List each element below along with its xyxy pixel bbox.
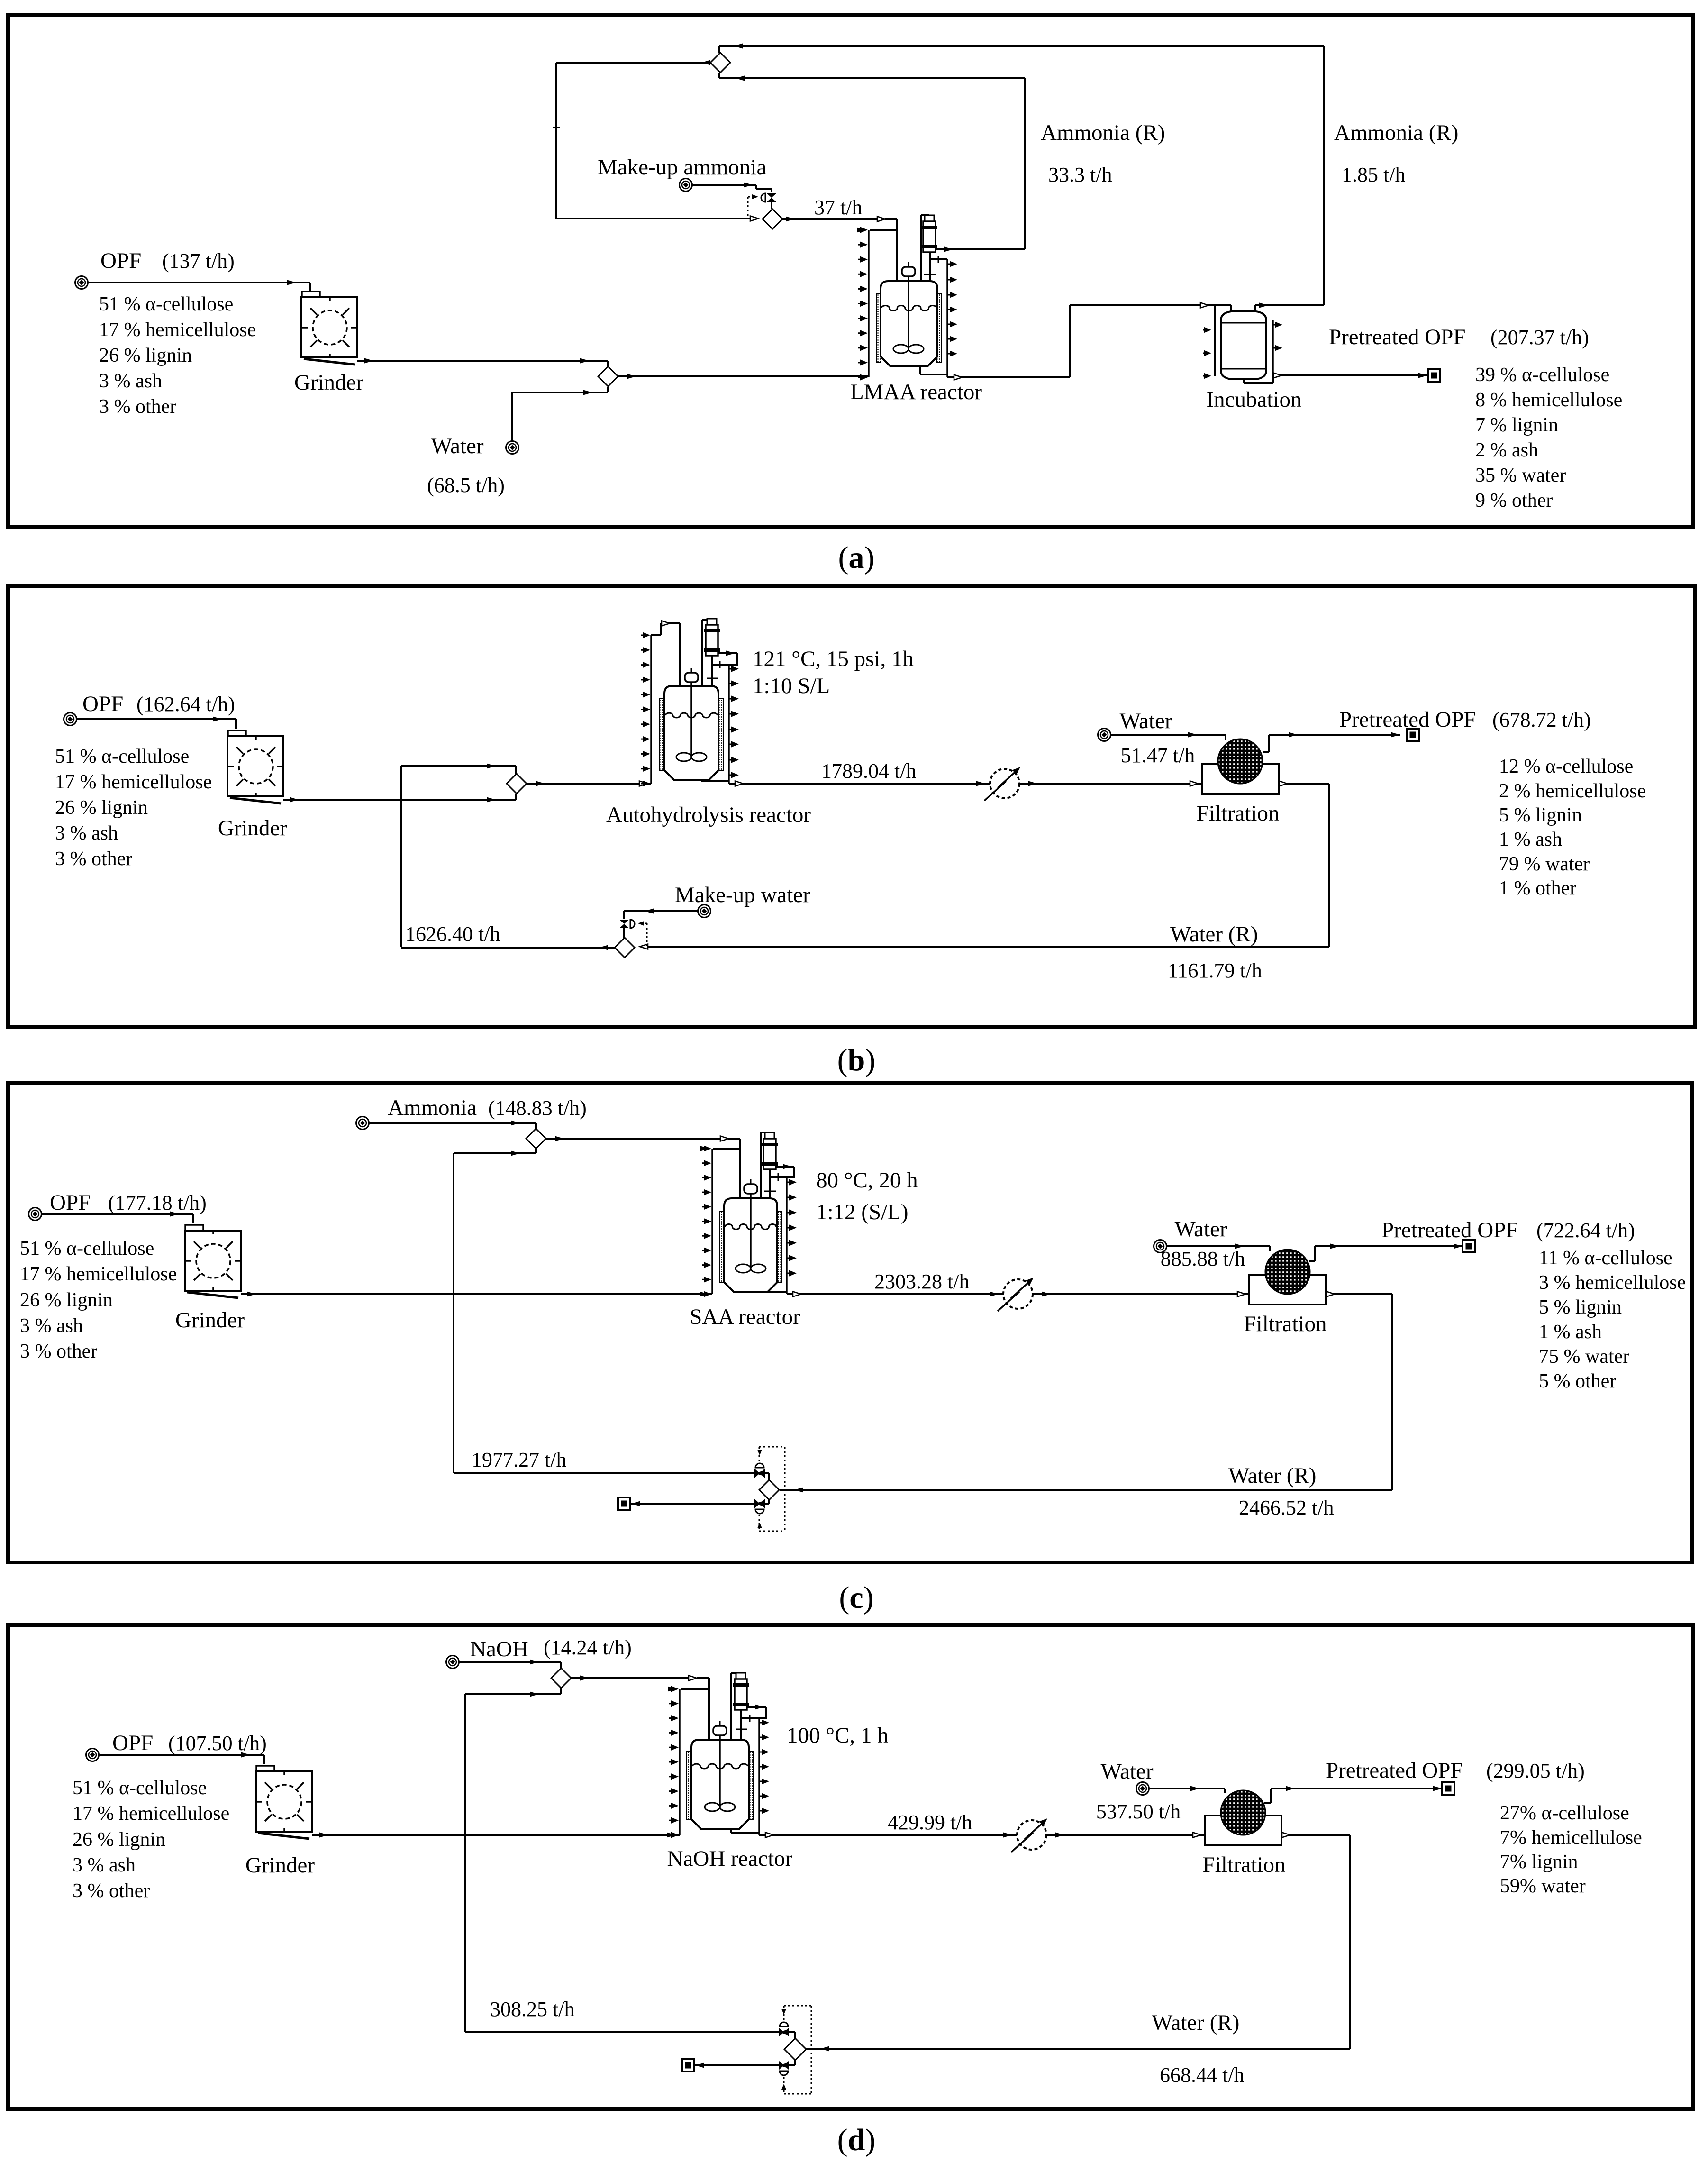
- wire LMAA outlet to incubation (a): [947, 376, 1070, 378]
- svg-text:Pretreated OPF: Pretreated OPF: [1339, 707, 1476, 732]
- svg-text:3 % other: 3 % other: [99, 396, 176, 418]
- svg-text:(148.83 t/h): (148.83 t/h): [488, 1096, 587, 1120]
- svg-text:(722.64 t/h): (722.64 t/h): [1536, 1219, 1635, 1242]
- filtration unit: [1202, 764, 1279, 794]
- svg-text:NaOH reactor: NaOH reactor: [667, 1846, 793, 1871]
- mixer MX-1 (d): [551, 1668, 571, 1688]
- svg-text:17 % hemicellulose: 17 % hemicellulose: [73, 1803, 229, 1825]
- svg-text:3 % other: 3 % other: [20, 1341, 97, 1362]
- reactor jackets (d): [687, 1751, 691, 1820]
- svg-text:Make-up water: Make-up water: [675, 883, 810, 907]
- reactor condenser (a): [925, 215, 934, 221]
- svg-text:3 % other: 3 % other: [73, 1880, 150, 1902]
- svg-text:Water (R): Water (R): [1170, 922, 1258, 947]
- wire purge to sink (c): [631, 1503, 754, 1505]
- wire ammonia to mixer (c): [369, 1122, 536, 1124]
- svg-text:1789.04 t/h: 1789.04 t/h: [821, 759, 916, 783]
- reactor right port column (b): [728, 665, 730, 784]
- reactor vessel (b): [664, 686, 718, 780]
- reactor jackets (c): [719, 1211, 724, 1282]
- wire water to filtration drum (d): [1149, 1788, 1225, 1789]
- svg-text:Make-up ammonia: Make-up ammonia: [598, 155, 766, 180]
- svg-text:1161.79 t/h: 1161.79 t/h: [1168, 959, 1262, 982]
- wire NaOH to mixer (d): [459, 1661, 561, 1663]
- svg-text:17 % hemicellulose: 17 % hemicellulose: [20, 1263, 177, 1285]
- wire grinder outlet to mixer (b): [283, 799, 516, 801]
- svg-text:2 % ash: 2 % ash: [1475, 439, 1538, 461]
- reactor liquid wave (d): [692, 1764, 748, 1769]
- reactor condenser riser (d): [730, 1673, 732, 1740]
- wire mixer to reactor top (d): [571, 1677, 693, 1679]
- svg-text:OPF: OPF: [100, 248, 141, 273]
- svg-text:Water (R): Water (R): [1152, 2010, 1239, 2035]
- sink purge (d): [682, 2059, 694, 2072]
- reactor vessel (d): [691, 1740, 749, 1829]
- wire condenser out ammonia recycle (a): [936, 248, 1025, 250]
- svg-text:Filtration: Filtration: [1203, 1853, 1286, 1877]
- source make-up water (b): [698, 905, 711, 918]
- reactor agitator (a): [902, 267, 915, 276]
- condenser bottom pipe (a): [929, 252, 931, 281]
- source make-up ammonia (a): [680, 179, 692, 192]
- svg-text:1:12 (S/L): 1:12 (S/L): [816, 1200, 909, 1224]
- wire filtration outlet recycle (c): [1326, 1293, 1392, 1295]
- stub to right port column (a): [930, 258, 947, 260]
- sink pretreated OPF (b): [1407, 729, 1419, 741]
- reactor right port column (c): [786, 1177, 788, 1294]
- filtration unit: [1249, 1275, 1326, 1305]
- grinder unit: [302, 292, 320, 298]
- sink pretreated OPF (d): [1442, 1782, 1454, 1795]
- mixer make-up ammonia (a): [763, 209, 782, 229]
- stub to right port column (b): [712, 664, 738, 666]
- svg-text:(299.05 t/h): (299.05 t/h): [1486, 1759, 1585, 1782]
- svg-text:Grinder: Grinder: [294, 370, 364, 395]
- svg-text:33.3 t/h: 33.3 t/h: [1048, 163, 1112, 186]
- wire feed into grinder: [42, 1213, 193, 1215]
- source OPF (a): [75, 276, 88, 289]
- control line dotted (a): [747, 197, 749, 217]
- svg-text:(162.64 t/h): (162.64 t/h): [136, 693, 235, 716]
- svg-text:Grinder: Grinder: [175, 1308, 245, 1332]
- control line dotted (b): [646, 923, 648, 946]
- svg-text:26 % lignin: 26 % lignin: [73, 1829, 165, 1851]
- reactor condenser riser (a): [920, 215, 922, 281]
- wire feed into grinder: [77, 718, 236, 720]
- svg-text:1 % ash: 1 % ash: [1499, 829, 1562, 850]
- source ammonia (c): [356, 1117, 369, 1130]
- svg-text:Water: Water: [431, 434, 483, 458]
- svg-text:Grinder: Grinder: [245, 1853, 315, 1878]
- svg-text:39 % α-cellulose: 39 % α-cellulose: [1475, 364, 1609, 386]
- svg-text:2 % hemicellulose: 2 % hemicellulose: [1499, 780, 1646, 802]
- svg-text:Water: Water: [1100, 1759, 1153, 1784]
- reactor condenser (b): [707, 619, 717, 625]
- svg-text:Ammonia: Ammonia: [388, 1095, 477, 1120]
- svg-text:121 °C, 15 psi, 1h: 121 °C, 15 psi, 1h: [753, 647, 914, 671]
- incubation inlet plumbing (a): [1214, 305, 1216, 376]
- svg-text:35 % water: 35 % water: [1475, 465, 1566, 486]
- wire recycle to riser 308.25 (d): [465, 2031, 779, 2033]
- svg-text:Pretreated OPF: Pretreated OPF: [1381, 1218, 1518, 1242]
- splitter top branch to valve (c): [768, 1473, 770, 1480]
- wire water to filtration drum (c): [1167, 1245, 1270, 1247]
- svg-text:OPF: OPF: [112, 1731, 153, 1755]
- svg-text:27% α-cellulose: 27% α-cellulose: [1500, 1802, 1629, 1824]
- wire feed into grinder: [303, 282, 310, 283]
- panel a border: [8, 15, 1693, 527]
- stub to right port column (c): [770, 1176, 795, 1178]
- svg-text:(207.37 t/h): (207.37 t/h): [1490, 326, 1589, 349]
- reactor agitator (c): [744, 1184, 757, 1194]
- wire recycle riser (b): [400, 766, 402, 947]
- reactor left port column (a): [868, 230, 870, 377]
- splitter of recycled ammonia (a): [710, 53, 730, 73]
- reactor internal top loop (b): [651, 634, 661, 636]
- svg-text:Water (R): Water (R): [1228, 1463, 1316, 1488]
- svg-text:79 % water: 79 % water: [1499, 853, 1590, 875]
- mixer MX-1 (a): [598, 366, 618, 386]
- svg-text:26 % lignin: 26 % lignin: [20, 1289, 113, 1311]
- grinder unit: [256, 1766, 274, 1772]
- condenser outlet (b): [718, 652, 737, 654]
- valve purge (d): [779, 2061, 784, 2070]
- valve recycle (d): [779, 2027, 784, 2037]
- splitter top branch to valve (d): [794, 2032, 796, 2038]
- svg-text:Filtration: Filtration: [1244, 1312, 1327, 1336]
- sink purge (c): [618, 1497, 630, 1510]
- reactor left port column (d): [679, 1689, 681, 1835]
- heat exchanger (b): [990, 769, 1019, 798]
- svg-text:5 % lignin: 5 % lignin: [1539, 1296, 1622, 1318]
- svg-text:1:10 S/L: 1:10 S/L: [753, 674, 830, 698]
- svg-text:Water: Water: [1174, 1217, 1227, 1241]
- svg-text:(107.50 t/h): (107.50 t/h): [168, 1732, 267, 1755]
- reactor top port branch (c): [713, 1148, 740, 1150]
- svg-text:51 % α-cellulose: 51 % α-cellulose: [55, 746, 189, 767]
- wire reactor outlet to HX (c): [787, 1293, 1003, 1295]
- reactor vessel (a): [881, 281, 937, 366]
- wire grinder outlet to reactor (c): [241, 1293, 712, 1295]
- svg-text:1.85 t/h: 1.85 t/h: [1342, 163, 1405, 186]
- svg-text:(c): (c): [839, 1580, 873, 1615]
- reactor left port column (b): [650, 635, 652, 784]
- wire recycle riser (c): [453, 1153, 454, 1473]
- make-up water mixer (b): [615, 938, 635, 958]
- wire mixer recycle out (b): [401, 947, 615, 949]
- svg-text:Grinder: Grinder: [218, 816, 288, 840]
- reactor jackets (b): [660, 699, 664, 770]
- svg-text:(678.72 t/h): (678.72 t/h): [1492, 708, 1591, 731]
- svg-text:2303.28 t/h: 2303.28 t/h: [874, 1270, 969, 1293]
- reactor jackets (a): [876, 293, 881, 363]
- sink pretreated OPF (c): [1463, 1240, 1475, 1252]
- mixer MX-1 (b): [507, 774, 527, 794]
- svg-text:LMAA reactor: LMAA reactor: [850, 380, 982, 404]
- valve make-up water (b): [619, 920, 629, 924]
- wire filtration outlet recycle (d): [1281, 1834, 1350, 1836]
- svg-text:5 % lignin: 5 % lignin: [1499, 804, 1582, 826]
- incubation right ports (a): [1272, 320, 1274, 375]
- condenser bottom pipe (c): [769, 1169, 771, 1198]
- svg-text:Water: Water: [1119, 709, 1172, 733]
- svg-text:(68.5 t/h): (68.5 t/h): [427, 474, 505, 497]
- wire purge to sink (d): [695, 2064, 779, 2066]
- reactor right port column (a): [946, 259, 948, 377]
- wire filtration product to sink (b): [1263, 751, 1269, 753]
- svg-text:3 % other: 3 % other: [55, 848, 132, 870]
- wire mixer to LMAA reactor 37 t/h (a): [782, 218, 880, 220]
- svg-text:75 % water: 75 % water: [1539, 1346, 1629, 1368]
- svg-text:51 % α-cellulose: 51 % α-cellulose: [73, 1777, 207, 1799]
- svg-text:(137 t/h): (137 t/h): [162, 249, 235, 273]
- wire ammonia recycle 33.3 into splitter (a): [719, 77, 1025, 79]
- wire HX to filtration (d): [1046, 1834, 1205, 1836]
- wire filtration outlet recycle (b): [1279, 783, 1329, 785]
- wire OPF to grinder (a): [88, 282, 310, 283]
- heat exchanger (c): [1003, 1279, 1033, 1309]
- wire HX to filtration (b): [1019, 783, 1202, 785]
- svg-text:3 % ash: 3 % ash: [99, 370, 162, 392]
- svg-text:51 % α-cellulose: 51 % α-cellulose: [20, 1238, 154, 1259]
- reactor liquid wave (b): [665, 713, 718, 718]
- source water (c): [1154, 1240, 1167, 1253]
- wire splitter to make-up mixer (a): [556, 62, 710, 64]
- svg-text:1626.40 t/h: 1626.40 t/h: [405, 922, 500, 946]
- reactor condenser (d): [736, 1673, 745, 1679]
- source NaOH (d): [446, 1656, 459, 1669]
- wire water to mixer (a): [511, 392, 513, 441]
- reactor right port column (d): [758, 1718, 760, 1835]
- wire grinder to mixer (a): [357, 360, 608, 362]
- svg-text:80 °C, 20 h: 80 °C, 20 h: [816, 1168, 918, 1193]
- valve recycle (c): [754, 1469, 760, 1478]
- svg-text:11 % α-cellulose: 11 % α-cellulose: [1539, 1247, 1672, 1269]
- svg-text:(d): (d): [837, 2123, 876, 2157]
- svg-text:308.25 t/h: 308.25 t/h: [490, 1998, 574, 2021]
- wire mixer to reactor top (c): [546, 1138, 725, 1140]
- svg-text:51 % α-cellulose: 51 % α-cellulose: [99, 293, 233, 315]
- svg-text:5 % other: 5 % other: [1539, 1370, 1616, 1392]
- svg-text:1 % ash: 1 % ash: [1539, 1321, 1602, 1343]
- reactor condenser riser (c): [760, 1132, 762, 1198]
- svg-text:Autohydrolysis reactor: Autohydrolysis reactor: [606, 803, 811, 827]
- svg-text:1977.27 t/h: 1977.27 t/h: [472, 1448, 566, 1471]
- svg-text:Filtration: Filtration: [1197, 801, 1280, 826]
- svg-text:17 % hemicellulose: 17 % hemicellulose: [55, 771, 212, 793]
- wire reactor outlet to HX (b): [729, 783, 990, 785]
- source OPF (c): [29, 1208, 42, 1221]
- heat exchanger (d): [1017, 1820, 1046, 1850]
- reactor liquid wave (a): [881, 306, 936, 311]
- valve purge (c): [754, 1499, 760, 1508]
- reactor condenser riser (b): [701, 620, 703, 686]
- filtration unit: [1205, 1816, 1281, 1845]
- svg-text:(a): (a): [838, 540, 875, 575]
- splitter with purge valves (d): [784, 2005, 811, 2007]
- panel b border: [8, 586, 1695, 1027]
- svg-text:NaOH: NaOH: [470, 1637, 528, 1661]
- svg-text:8 % hemicellulose: 8 % hemicellulose: [1475, 389, 1622, 411]
- svg-text:668.44 t/h: 668.44 t/h: [1160, 2063, 1244, 2087]
- svg-text:Pretreated OPF: Pretreated OPF: [1329, 325, 1465, 349]
- wire recycle to riser 1977.27 (c): [454, 1472, 754, 1474]
- svg-text:100 °C, 1 h: 100 °C, 1 h: [787, 1723, 889, 1748]
- condenser outlet (d): [747, 1706, 766, 1708]
- stub to right port column (d): [741, 1717, 767, 1719]
- svg-text:Ammonia (R): Ammonia (R): [1334, 120, 1458, 145]
- svg-text:26 % lignin: 26 % lignin: [55, 797, 148, 819]
- svg-text:37 t/h: 37 t/h: [814, 196, 862, 219]
- splitter with purge valves (c): [759, 1446, 785, 1448]
- panel c border: [8, 1083, 1692, 1562]
- wire filtration product to sink (c): [1309, 1260, 1315, 1262]
- panel d border: [8, 1625, 1693, 2109]
- wire make-up water to valve (b): [624, 910, 698, 912]
- reactor liquid wave (c): [725, 1224, 776, 1230]
- svg-text:59% water: 59% water: [1500, 1875, 1586, 1897]
- wire filtration product to sink (d): [1264, 1802, 1271, 1804]
- incubation bottom outlet (a): [1243, 379, 1245, 383]
- incubation vessel (a): [1221, 311, 1266, 379]
- wire HX to filtration (c): [1033, 1293, 1249, 1295]
- svg-text:1 % other: 1 % other: [1499, 877, 1576, 899]
- wire product to sink (a): [1273, 374, 1427, 376]
- svg-text:SAA reactor: SAA reactor: [690, 1305, 800, 1329]
- reactor vessel (c): [724, 1198, 777, 1292]
- condenser bottom pipe (b): [711, 656, 713, 686]
- splitter bottom branch to valve (d): [794, 2060, 796, 2065]
- svg-text:Ammonia (R): Ammonia (R): [1041, 120, 1165, 145]
- svg-text:7% hemicellulose: 7% hemicellulose: [1500, 1827, 1642, 1849]
- wire mixer to reactor (b): [527, 783, 651, 785]
- svg-text:429.99 t/h: 429.99 t/h: [888, 1811, 972, 1834]
- svg-text:3 % ash: 3 % ash: [20, 1315, 83, 1337]
- wire mixer to reactor (a): [618, 375, 869, 377]
- splitter bottom branch to valve (c): [768, 1500, 770, 1504]
- condenser outlet (c): [776, 1166, 794, 1168]
- svg-text:OPF: OPF: [82, 692, 123, 716]
- reactor top port branch (d): [681, 1688, 709, 1690]
- svg-text:12 % α-cellulose: 12 % α-cellulose: [1499, 756, 1633, 777]
- source OPF (b): [64, 713, 77, 726]
- wire recycle riser (d): [464, 1694, 466, 2032]
- source Water (a): [506, 441, 519, 454]
- svg-text:3 % ash: 3 % ash: [73, 1854, 136, 1876]
- reactor bottom outlet stub (d): [730, 1829, 732, 1833]
- wire grinder outlet to reactor (d): [312, 1834, 680, 1836]
- grinder unit: [228, 730, 246, 737]
- svg-text:7 % lignin: 7 % lignin: [1475, 414, 1558, 436]
- svg-text:17 % hemicellulose: 17 % hemicellulose: [99, 319, 256, 341]
- svg-text:Pretreated OPF: Pretreated OPF: [1326, 1758, 1463, 1783]
- grinder unit: [185, 1225, 203, 1232]
- mixer MX-1 (c): [526, 1129, 546, 1149]
- wire incubation recycle up (a): [1323, 46, 1325, 305]
- source water (b): [1098, 729, 1111, 741]
- svg-text:OPF: OPF: [50, 1190, 91, 1215]
- svg-text:(177.18 t/h): (177.18 t/h): [108, 1191, 207, 1214]
- svg-text:(b): (b): [837, 1043, 876, 1077]
- reactor agitator (b): [685, 673, 698, 682]
- wire reactor outlet to HX (d): [759, 1834, 1017, 1836]
- svg-text:7% lignin: 7% lignin: [1500, 1851, 1578, 1873]
- svg-text:3 % ash: 3 % ash: [55, 822, 118, 844]
- svg-text:885.88 t/h: 885.88 t/h: [1161, 1247, 1245, 1270]
- svg-text:2466.52 t/h: 2466.52 t/h: [1239, 1496, 1334, 1519]
- svg-text:26 % lignin: 26 % lignin: [99, 345, 192, 366]
- svg-text:537.50 t/h: 537.50 t/h: [1096, 1800, 1181, 1823]
- condenser bottom pipe (d): [740, 1710, 742, 1740]
- reactor agitator (d): [713, 1726, 727, 1735]
- reactor condenser (c): [765, 1132, 774, 1139]
- reactor bottom outlet stub (c): [759, 1292, 761, 1292]
- incubation top outlet (a): [1254, 305, 1256, 312]
- svg-text:51.47 t/h: 51.47 t/h: [1121, 744, 1195, 767]
- svg-text:9 % other: 9 % other: [1475, 490, 1553, 511]
- svg-text:Incubation: Incubation: [1207, 387, 1302, 412]
- source water (d): [1136, 1782, 1149, 1795]
- reactor bottom outlet stub (a): [919, 366, 921, 374]
- wire reactor top port branch (a): [870, 229, 897, 231]
- svg-text:(14.24 t/h): (14.24 t/h): [544, 1636, 632, 1659]
- valve make-up ammonia (a): [767, 193, 776, 198]
- svg-text:3 % hemicellulose: 3 % hemicellulose: [1539, 1272, 1686, 1294]
- wire water to filtration drum (b): [1111, 734, 1226, 736]
- sink pretreated OPF (a): [1428, 369, 1440, 382]
- wire ammonia recycle 1.85 into splitter (a): [719, 45, 1324, 47]
- reactor left port column (c): [711, 1149, 713, 1294]
- wire make-up ammonia to valve (a): [692, 184, 756, 186]
- reactor bottom outlet stub (b): [700, 780, 702, 781]
- source OPF (d): [86, 1749, 99, 1761]
- wire feed into grinder: [99, 1754, 264, 1756]
